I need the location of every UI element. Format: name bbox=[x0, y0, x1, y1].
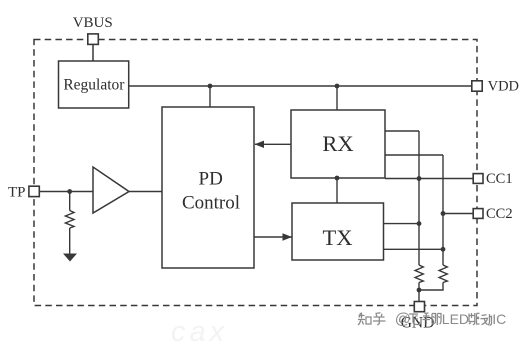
pin GND bbox=[401, 302, 435, 332]
svg-text:LED: LED bbox=[442, 311, 469, 327]
svg-text:IC: IC bbox=[492, 311, 506, 327]
wire rail to PD Control top bbox=[209, 86, 211, 107]
wire RX to PD Control bbox=[255, 141, 292, 148]
wire R2 bottom to GND pin bbox=[418, 283, 420, 302]
wire CC1 line bbox=[385, 178, 473, 180]
pin CC2 bbox=[473, 206, 512, 222]
wire TP input bbox=[39, 191, 93, 193]
wire TX to bus 1 bbox=[384, 223, 420, 225]
resistor R3 (bus2 pulldown) bbox=[439, 265, 447, 283]
svg-text:@: @ bbox=[395, 311, 411, 328]
wire VBUS stem bbox=[92, 45, 94, 62]
wire R3 bottom to junction bbox=[419, 283, 443, 291]
pin CC1 bbox=[473, 171, 512, 187]
pin VDD bbox=[472, 79, 519, 95]
node TP wire junction bbox=[67, 189, 72, 194]
pin TP bbox=[8, 185, 39, 201]
wire vertical bus 1 bbox=[418, 131, 420, 265]
svg-text:PD: PD bbox=[199, 169, 223, 190]
svg-text:Control: Control bbox=[182, 193, 240, 214]
node rail-RX junction bbox=[335, 84, 340, 89]
wire RX bottom to TX top bbox=[336, 178, 338, 203]
wire PD Control to TX bbox=[254, 233, 292, 240]
PD Control block bbox=[162, 107, 254, 268]
svg-text:CC2: CC2 bbox=[486, 206, 513, 222]
ground (arrow style) bbox=[63, 254, 77, 262]
regulator block bbox=[59, 61, 129, 108]
node CC1-bus1 junction bbox=[417, 176, 422, 181]
node rail-PD junction bbox=[208, 84, 213, 89]
乎 bbox=[373, 313, 386, 325]
node RX bottom junction bbox=[335, 176, 340, 181]
知 bbox=[358, 313, 371, 326]
node CC2-bus2 junction bbox=[441, 211, 446, 216]
RX block bbox=[291, 110, 385, 178]
飞 bbox=[409, 314, 420, 325]
wire TX to bus 2 bbox=[384, 248, 444, 250]
node TX-bus2 junction bbox=[441, 247, 446, 252]
wire CC2 line bbox=[443, 213, 473, 215]
svg-text:RX: RX bbox=[322, 131, 353, 156]
wire op-amp output to PD Control bbox=[129, 191, 162, 193]
wire R1 to ground bbox=[69, 228, 71, 254]
resistor R2 (bus1 pulldown) bbox=[415, 265, 423, 283]
wire VDD rail bbox=[129, 85, 472, 87]
wire RX to vertical bus 1 bbox=[385, 130, 419, 132]
驱 bbox=[469, 313, 480, 325]
svg-text:TP: TP bbox=[8, 185, 26, 201]
IC boundary dashed box bbox=[34, 40, 477, 306]
wire vertical bus 2 bbox=[442, 155, 444, 265]
wire rail to RX top bbox=[336, 86, 338, 110]
wire TP branch down bbox=[69, 192, 71, 211]
翔 bbox=[423, 313, 442, 325]
pin VBUS bbox=[73, 15, 113, 44]
resistor R1 (TP pulldown) bbox=[65, 211, 74, 229]
op-amp buffer bbox=[93, 167, 129, 213]
zhihu watermark bbox=[358, 311, 506, 328]
svg-text:VDD: VDD bbox=[488, 79, 519, 95]
wire RX to vertical bus 2 bbox=[385, 154, 443, 156]
动 bbox=[481, 314, 492, 325]
node resistor bottoms junction bbox=[417, 288, 422, 293]
svg-text:VBUS: VBUS bbox=[73, 15, 113, 31]
TX block bbox=[292, 203, 384, 260]
svg-text:TX: TX bbox=[323, 225, 353, 250]
svg-text:Regulator: Regulator bbox=[63, 77, 125, 94]
svg-text:CC1: CC1 bbox=[486, 171, 513, 187]
svg-text:cax: cax bbox=[171, 316, 228, 343]
node TX-bus1 junction bbox=[417, 221, 422, 226]
